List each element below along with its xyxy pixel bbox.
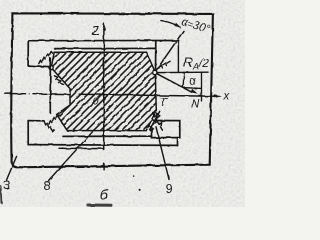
bottom bar left edge: [27, 121, 29, 145]
svg-text:Z: Z: [92, 24, 100, 38]
serration ticks above lower-left chamfer: [49, 114, 59, 124]
x axis arrowhead: [214, 95, 222, 98]
centerline dash-dot left: [5, 93, 47, 95]
shoulder block top-left portion: [151, 136, 153, 137]
contact point circle left: [49, 66, 53, 70]
Z axis arrowhead: [102, 22, 105, 30]
right serrated slope: [153, 113, 163, 131]
top bar right edge / projection line to contact point: [155, 41, 157, 71]
contact point circle right (vertex): [153, 70, 157, 74]
top bar bottom edge: [55, 47, 156, 49]
svg-text:α: α: [189, 76, 196, 88]
serration ticks on diagonal: [158, 61, 170, 67]
housing outer frame: [11, 13, 213, 167]
bottom plate right end edge: [177, 138, 179, 146]
x axis line: [50, 94, 215, 96]
bottom bar left shoulder top: [28, 120, 44, 122]
leader line part 3: [7, 157, 17, 181]
top bar top edge (with reference extension): [28, 40, 178, 42]
leader line part 8: [49, 132, 93, 181]
vector arrowhead: [191, 89, 198, 94]
bottom plate bottom edge: [28, 144, 177, 147]
leader line part 9: [156, 127, 169, 180]
bottom plate top edge: [63, 135, 152, 137]
svg-text:3: 3: [4, 179, 11, 193]
scan smudge bottom: [88, 204, 111, 207]
bottom right shoulder block: [152, 121, 180, 138]
svg-text:8: 8: [44, 179, 51, 193]
reference vertical line right: [177, 41, 179, 73]
slider (hatched): [51, 52, 156, 130]
right gib line: [150, 111, 160, 129]
svg-text:T: T: [160, 97, 168, 109]
alpha angle box: [183, 72, 202, 101]
horizontal reference from vertex: [157, 71, 208, 73]
housing left wall vertical: [49, 58, 51, 113]
svg-text:б: б: [100, 188, 109, 204]
svg-text:N: N: [191, 99, 200, 111]
svg-text:9: 9: [166, 182, 173, 196]
extra lamination line left: [59, 147, 103, 149]
serration ticks below left contact circle: [54, 76, 64, 85]
30-degree diagonal from vertex: [156, 31, 183, 71]
scan edge artifact left: [0, 186, 2, 203]
stray dot: [139, 189, 141, 191]
gib serration ticks: [149, 113, 160, 130]
bottom bar left serrated slope: [44, 122, 54, 132]
svg-text:0: 0: [93, 96, 99, 108]
top bar left edge: [27, 41, 29, 66]
Z axis: [103, 24, 105, 169]
angle arc: [161, 21, 180, 28]
top bar left foot bottom edge: [28, 65, 49, 68]
top bar serrated slope (zigzag): [39, 51, 53, 63]
R_A/2 force vector: [157, 74, 192, 92]
arc arrowhead: [174, 23, 181, 28]
